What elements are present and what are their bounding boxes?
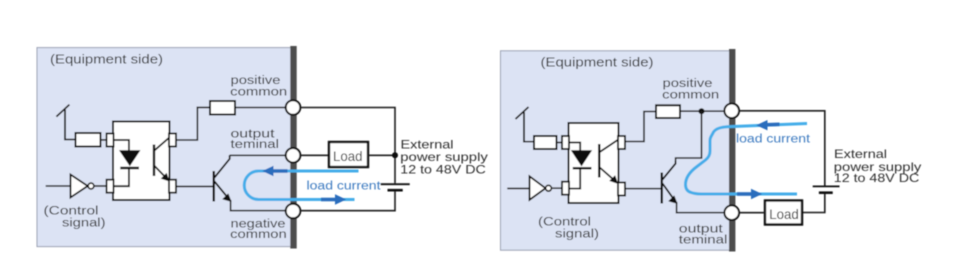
- svg-text:teminal: teminal: [679, 234, 728, 246]
- wire Load to output teminal circle (right): [739, 212, 765, 214]
- svg-text:common: common: [230, 86, 287, 98]
- terminal: positive common (right): [724, 104, 739, 119]
- phototransistor: [598, 144, 600, 178]
- svg-text:(Equipment side): (Equipment side): [50, 53, 163, 67]
- external top wire (right): [739, 111, 825, 186]
- wire R1 to optocoupler pin1: [101, 139, 108, 141]
- load box (right): [765, 201, 802, 225]
- load current arrow left (right circuit): [756, 120, 779, 130]
- LED D2: [569, 143, 580, 152]
- external top wire (left): [300, 108, 395, 184]
- battery BT1 (left): [381, 184, 410, 190]
- svg-text:12 to 48V DC: 12 to 48V DC: [834, 171, 920, 185]
- load current loop (left): [244, 171, 358, 200]
- power tick (left): [56, 105, 69, 140]
- transistor Q2 (right): [662, 161, 677, 204]
- wire opto pin3 to transistor base (right): [625, 188, 662, 190]
- wire battery to negative common: [300, 191, 395, 211]
- junction node (right): [699, 108, 705, 114]
- svg-text:load current: load current: [307, 181, 382, 193]
- inverter gate (right): [530, 176, 563, 200]
- svg-text:Load: Load: [333, 148, 363, 164]
- equipment side bar (left): [290, 46, 296, 249]
- svg-text:load current: load current: [736, 134, 811, 146]
- svg-text:Load: Load: [769, 206, 799, 222]
- terminal: positive common (left): [286, 100, 301, 115]
- equipment box (left): [37, 48, 293, 247]
- optocoupler U2 (right): [562, 123, 625, 203]
- svg-text:common: common: [662, 89, 719, 101]
- terminal: output teminal (left): [286, 148, 301, 163]
- inverter gate (left): [71, 175, 108, 198]
- wire opto pin4 to R2: [176, 107, 210, 140]
- wire R2 to positive common terminal (right): [680, 110, 725, 112]
- svg-text:(Equipment side): (Equipment side): [541, 56, 654, 70]
- svg-text:positive: positive: [663, 78, 713, 90]
- wire junction down to collector: [676, 111, 702, 162]
- resistor R1 (right): [534, 136, 557, 149]
- load current arrow right (right circuit): [737, 189, 762, 199]
- resistor R1 (left): [76, 133, 101, 147]
- wire tick to R1: [523, 141, 534, 143]
- wire R2 to positive common terminal: [235, 107, 286, 109]
- wire emitter to output teminal (right): [677, 202, 726, 213]
- load box (left): [329, 142, 368, 167]
- terminal: negative common (left): [286, 204, 301, 219]
- svg-text:(Control: (Control: [538, 217, 591, 229]
- LED D1: [114, 140, 129, 151]
- optocoupler U1 (left): [107, 122, 176, 201]
- equipment box (right): [501, 51, 733, 250]
- resistor R2 (left): [210, 101, 235, 115]
- svg-text:signal): signal): [555, 229, 599, 241]
- wire opto pin4 up to R2 (right): [625, 112, 656, 142]
- wire output teminal to Load: [300, 154, 329, 156]
- control signal input wire (right): [507, 187, 529, 189]
- power tick (right): [516, 107, 529, 142]
- load current S-curve (right): [686, 124, 808, 195]
- load current arrow right (left circuit): [321, 194, 346, 204]
- wire collector to output terminal: [230, 154, 286, 156]
- resistor R2 (right): [656, 105, 680, 118]
- terminal: output teminal (right): [724, 205, 739, 220]
- equipment side bar (right): [729, 49, 735, 252]
- wire emitter to negative common: [231, 200, 286, 211]
- svg-text:(Control: (Control: [44, 206, 99, 218]
- wire battery down to Load (right): [802, 194, 825, 213]
- wire R1 to optocoupler: [557, 142, 563, 144]
- svg-text:12 to 48V DC: 12 to 48V DC: [400, 163, 486, 177]
- junction node (left): [392, 152, 398, 158]
- wire Load to supply node: [368, 154, 395, 156]
- svg-text:signal): signal): [62, 218, 106, 230]
- wire opto pin3 to transistor base: [176, 185, 214, 187]
- battery BT2 (right): [813, 186, 840, 192]
- phototransistor: [153, 145, 155, 177]
- transistor Q1 (left): [214, 155, 231, 201]
- svg-text:positive: positive: [231, 75, 281, 87]
- load current arrow left (left circuit): [262, 166, 287, 176]
- control signal input wire (left): [46, 185, 71, 187]
- wire tick to R1: [64, 139, 75, 141]
- svg-text:teminal: teminal: [231, 139, 280, 151]
- svg-text:common: common: [230, 229, 287, 241]
